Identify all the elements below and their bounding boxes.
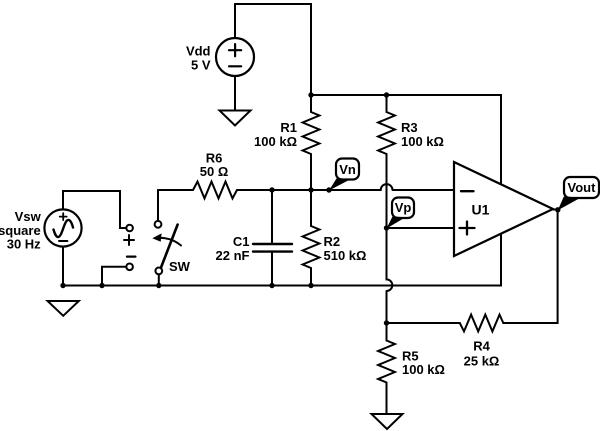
junction (Vsw ground rail)	[60, 283, 65, 288]
svg-text:R1: R1	[280, 120, 297, 135]
wire Vp row to op-amp plus input	[387, 227, 455, 229]
wire minus terminal to ground rail	[102, 267, 126, 286]
voltage source Vdd	[216, 38, 254, 76]
junction (switch bottom rail)	[156, 283, 161, 288]
resistor R2	[303, 190, 320, 286]
junction (C1 bottom rail)	[269, 283, 274, 288]
wire R3 column Vp junction down with hop over ground rail	[387, 228, 393, 323]
svg-text:5 V: 5 V	[191, 58, 211, 73]
wire Vsw top lead to plus terminal	[63, 191, 126, 228]
wire Vn row: R6 to C1 to R1/R2 to op-amp with hop over R3 column	[237, 184, 454, 190]
svg-text:Vout: Vout	[568, 180, 597, 195]
junction (R3 top rail)	[384, 92, 389, 97]
wire Vn row: switch to R6	[158, 189, 193, 191]
junction (R2 bottom rail)	[308, 283, 313, 288]
node Vp	[387, 198, 415, 229]
svg-text:Vn: Vn	[339, 162, 356, 177]
svg-text:Vsw: Vsw	[15, 209, 42, 224]
svg-text:30 Hz: 30 Hz	[7, 236, 41, 251]
resistor R5	[378, 323, 395, 414]
plus mark at terminal	[124, 235, 134, 245]
junction (Vp)	[384, 225, 389, 230]
wire switch top lead	[157, 190, 159, 221]
wire R4 to R4/R5 junction	[387, 322, 460, 324]
svg-text:25 kΩ: 25 kΩ	[464, 353, 500, 368]
svg-text:50 Ω: 50 Ω	[200, 164, 229, 179]
svg-text:22 nF: 22 nF	[216, 248, 250, 263]
junction (R1/R2/Vn)	[308, 187, 313, 192]
junction (C1 top)	[269, 187, 274, 192]
wire C1 leads	[271, 190, 273, 286]
wire ground rail	[63, 234, 501, 286]
wire Vdd source leads	[234, 4, 236, 111]
svg-text:Vp: Vp	[395, 200, 412, 215]
wire switch bottom lead	[158, 274, 160, 285]
junction (R4/R5)	[384, 320, 389, 325]
terminal plus (Vsw)	[126, 225, 133, 232]
terminal minus (Vsw)	[126, 264, 133, 271]
resistor R6	[193, 182, 237, 199]
resistor R4	[460, 315, 504, 332]
node Vn	[329, 159, 359, 191]
resistor R1	[303, 95, 320, 190]
svg-text:100 kΩ: 100 kΩ	[402, 362, 445, 377]
op-amp U1	[454, 162, 553, 256]
ground (below Vdd)	[220, 111, 251, 126]
wire Vsw bottom lead to ground rail	[62, 247, 64, 286]
switch SW	[152, 221, 181, 274]
op-amp minus input mark	[461, 190, 474, 192]
junction (Vout)	[555, 207, 560, 212]
minus mark at terminal	[127, 255, 135, 257]
wire R3 column down through Vn row to Vp junction	[386, 154, 388, 228]
op-amp plus input mark	[460, 222, 475, 235]
wire Vdd top rail to R1 column	[235, 4, 311, 95]
svg-text:C1: C1	[233, 234, 250, 249]
svg-text:R6: R6	[206, 150, 223, 165]
svg-text:510 kΩ: 510 kΩ	[324, 248, 367, 263]
svg-text:100 kΩ: 100 kΩ	[254, 134, 297, 149]
svg-text:R4: R4	[473, 338, 490, 353]
resistor R3	[378, 95, 395, 154]
ground (below Vsw)	[48, 301, 79, 316]
capacitor C1	[253, 244, 292, 252]
svg-text:100 kΩ: 100 kΩ	[401, 134, 444, 149]
svg-text:R2: R2	[324, 234, 341, 249]
wire Vdd rail (R1 top to R3 top to right power column)	[311, 95, 501, 184]
wire op-amp output to feedback column	[503, 210, 557, 324]
ground (below R5)	[372, 414, 403, 429]
svg-text:R3: R3	[401, 120, 418, 135]
junction (Vn tail)	[326, 187, 331, 192]
voltage source Vsw	[44, 209, 81, 246]
svg-text:Vdd: Vdd	[186, 44, 211, 59]
svg-text:U1: U1	[472, 202, 490, 218]
svg-text:SW: SW	[169, 259, 191, 274]
junction (minus terminal rail)	[99, 283, 104, 288]
node Vout	[558, 177, 599, 210]
junction (R1 top rail)	[308, 92, 313, 97]
